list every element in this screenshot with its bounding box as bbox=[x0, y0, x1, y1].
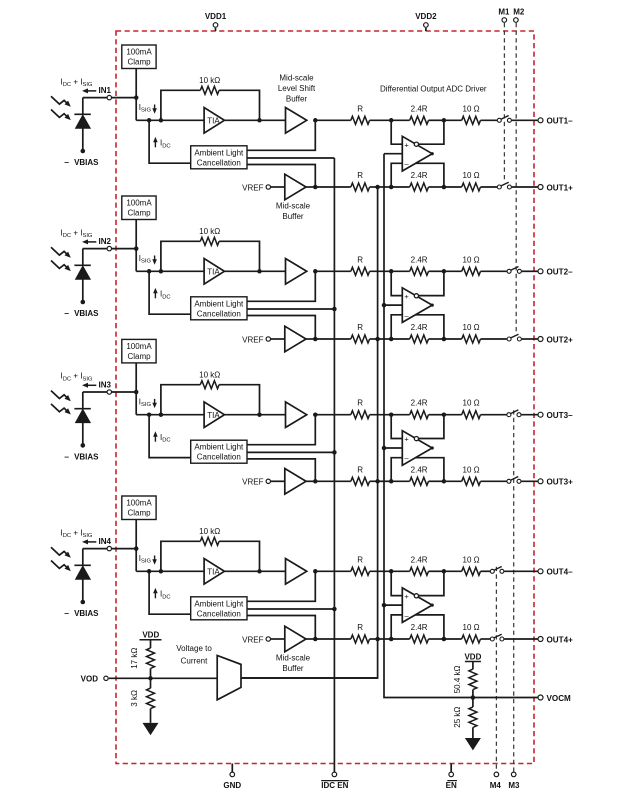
wire: output feedback (ch1) bbox=[415, 163, 444, 187]
junction: ALC tap (ch4) bbox=[147, 569, 152, 574]
wire: clamp stem (ch2) bbox=[135, 220, 137, 249]
junction (OUT2+ / offset bus) bbox=[375, 337, 380, 342]
control line M3 (dashed) bbox=[513, 410, 515, 772]
wire: to switch (OUT1-) bbox=[481, 119, 498, 121]
svg-text:TIA: TIA bbox=[207, 117, 220, 126]
wire: TIA input row (ch4) bbox=[136, 570, 204, 572]
switch (OUT4-) bbox=[490, 567, 504, 574]
wire: ALC to VREF buffer node (ch4) bbox=[247, 616, 315, 640]
svg-text:10 kΩ: 10 kΩ bbox=[199, 227, 220, 236]
svg-text:–: – bbox=[64, 608, 69, 618]
switch (OUT3-) bbox=[507, 410, 521, 417]
junction: ALC tap (ch3) bbox=[147, 412, 152, 417]
junction (OUT3- after 2.4R) bbox=[442, 412, 447, 417]
svg-text:2.4R: 2.4R bbox=[411, 465, 428, 474]
svg-text:100mA: 100mA bbox=[126, 499, 152, 508]
op-amp differential driver U4 bbox=[402, 588, 434, 623]
100mA clamp box (ch1) bbox=[122, 45, 156, 69]
junction: TIA output/feedback (ch4) bbox=[257, 569, 262, 574]
wire: 3k to ground bbox=[150, 709, 152, 723]
junction: TIA output/feedback (ch2) bbox=[257, 269, 262, 274]
light arrows into D4 bbox=[51, 547, 71, 571]
wire: ALC to IDC-EN bus (ch2) bbox=[247, 308, 334, 310]
wire: to switch (OUT2-) bbox=[481, 270, 507, 272]
junction: VOCM bus tap (ch2) bbox=[382, 303, 387, 308]
wire: TIA out to buffer (ch3) bbox=[224, 414, 285, 416]
svg-text:10 Ω: 10 Ω bbox=[463, 555, 480, 564]
svg-text:VDD: VDD bbox=[464, 652, 481, 661]
pin OUT3+ bbox=[538, 479, 543, 484]
switch (OUT3+) bbox=[507, 477, 521, 484]
svg-text:Clamp: Clamp bbox=[127, 58, 151, 67]
wire: buffer output to ALC sense (ch2) bbox=[247, 271, 315, 301]
wire: feedback loop left (ch1) bbox=[161, 90, 200, 120]
junction: buffer output (ch4) bbox=[313, 569, 318, 574]
svg-text:VREF: VREF bbox=[242, 478, 263, 487]
junction (OUT1- after 2.4R) bbox=[442, 118, 447, 123]
op-amp TIA (ch2) bbox=[204, 259, 224, 285]
wire: OUT1- row (ch1) bbox=[315, 119, 351, 121]
wire: + input (ch4) bbox=[391, 571, 402, 595]
switch (OUT4+) bbox=[490, 634, 504, 641]
svg-text:M4: M4 bbox=[490, 781, 502, 790]
svg-text:Ambient Light: Ambient Light bbox=[194, 148, 244, 157]
wire: input down to TIA row (ch2) bbox=[135, 249, 137, 272]
pin M1 bbox=[498, 8, 510, 23]
wire: input down to TIA row (ch1) bbox=[135, 98, 137, 121]
svg-text:M3: M3 bbox=[508, 781, 520, 790]
photodiode D1 bbox=[74, 98, 90, 154]
wire: VREF buffer out (ch4) bbox=[306, 638, 315, 640]
wire: ALC to IDC-EN bus (ch3) bbox=[247, 451, 334, 453]
svg-text:–: – bbox=[64, 157, 69, 167]
svg-text:Cancellation: Cancellation bbox=[197, 609, 241, 618]
wire: TIA out to buffer (ch1) bbox=[224, 119, 285, 121]
wire: V2I output bbox=[241, 677, 378, 679]
wire: input down to TIA row (ch3) bbox=[135, 392, 137, 415]
junction: VREF buffer node (ch4) bbox=[313, 637, 318, 642]
wire: 25k to ground bbox=[472, 727, 474, 738]
wire: ALC to IDC-EN bus (ch4) bbox=[247, 608, 334, 610]
svg-text:R: R bbox=[357, 104, 363, 113]
svg-text:VDD: VDD bbox=[142, 631, 159, 640]
svg-text:R: R bbox=[357, 623, 363, 632]
resistor R (OUT2-) bbox=[351, 267, 370, 275]
svg-text:+: + bbox=[404, 435, 408, 444]
junction: feedback tap (ch4) bbox=[159, 569, 164, 574]
junction: ALC/IDC-EN bus (ch4) bbox=[332, 607, 337, 612]
svg-text:10 kΩ: 10 kΩ bbox=[199, 527, 220, 536]
wire: down to ALC input (ch3) bbox=[149, 415, 191, 458]
svg-text:R: R bbox=[357, 255, 363, 264]
junction (OUT2- after R) bbox=[389, 269, 394, 274]
svg-text:R: R bbox=[357, 555, 363, 564]
label: Mid-scale Buffer (ch1) bbox=[276, 202, 311, 222]
arrow IDC up (ch3) bbox=[153, 431, 158, 441]
ground (VOD divider) bbox=[143, 723, 159, 735]
resistor 10 kΩ feedback (ch1) bbox=[200, 86, 219, 94]
wire: to switch (OUT3-) bbox=[481, 414, 507, 416]
wire: clamp stem (ch4) bbox=[135, 520, 137, 549]
wire: to switch (OUT4+) bbox=[481, 638, 491, 640]
junction: ALC/IDC-EN bus (ch3) bbox=[332, 450, 337, 455]
junction: IN4/clamp node bbox=[134, 546, 139, 551]
wire: switch to OUT2- bbox=[522, 270, 538, 272]
pin EN (active low) bbox=[446, 764, 457, 790]
junction: buffer output (ch1) bbox=[313, 118, 318, 123]
arrow IDC up (ch2) bbox=[153, 288, 158, 298]
arrow ISIG down (ch3) bbox=[152, 399, 157, 408]
wire: 17k to node bbox=[150, 668, 152, 678]
pin VOCM bbox=[538, 695, 543, 700]
svg-text:OUT2–: OUT2– bbox=[547, 268, 574, 277]
resistor R (OUT2+) bbox=[351, 335, 370, 343]
junction: VREF buffer node (ch2) bbox=[313, 337, 318, 342]
resistor 2.4R (OUT2+) bbox=[410, 335, 429, 343]
junction: feedback tap (ch1) bbox=[159, 118, 164, 123]
resistor 10 Ω (OUT2+) bbox=[462, 335, 481, 343]
junction: ALC tap (ch2) bbox=[147, 269, 152, 274]
svg-text:10 Ω: 10 Ω bbox=[463, 399, 480, 408]
wire: feedback loop left (ch2) bbox=[161, 241, 200, 271]
svg-text:IDC EN: IDC EN bbox=[321, 781, 348, 790]
resistor 10 kΩ feedback (ch4) bbox=[200, 537, 219, 545]
resistor 10 Ω (OUT4-) bbox=[462, 567, 481, 575]
svg-text:2.4R: 2.4R bbox=[411, 171, 428, 180]
wire: switch to OUT1- bbox=[512, 119, 538, 121]
junction: TIA output/feedback (ch3) bbox=[257, 412, 262, 417]
wire: output feedback (ch3) bbox=[415, 458, 444, 482]
wire: node to 3k bbox=[150, 678, 152, 688]
svg-text:3 kΩ: 3 kΩ bbox=[130, 690, 139, 707]
resistor 2.4R (OUT2-) bbox=[410, 267, 429, 275]
wire: switch to OUT4- bbox=[504, 570, 537, 572]
svg-text:Cancellation: Cancellation bbox=[197, 453, 241, 462]
svg-text:Mid-scale: Mid-scale bbox=[279, 73, 314, 82]
svg-text:Ambient Light: Ambient Light bbox=[194, 599, 244, 608]
terminal circle IN4 bbox=[107, 546, 111, 550]
junction (OUT4+ / offset bus) bbox=[375, 637, 380, 642]
wire: - input (ch3) bbox=[391, 458, 402, 482]
svg-text:VREF: VREF bbox=[242, 635, 263, 644]
svg-text:Current: Current bbox=[181, 657, 208, 666]
junction: TIA output/feedback (ch1) bbox=[257, 118, 262, 123]
wire: to switch (OUT4-) bbox=[481, 570, 491, 572]
wire: down to ALC input (ch2) bbox=[149, 271, 191, 314]
junction (OUT1- after R) bbox=[389, 118, 394, 123]
svg-text:10 Ω: 10 Ω bbox=[463, 171, 480, 180]
svg-text:OUT2+: OUT2+ bbox=[547, 335, 574, 344]
wire: inverted output feedback (ch3) bbox=[419, 415, 444, 439]
wire: TIA input row (ch3) bbox=[136, 414, 204, 416]
terminal circle IN2 bbox=[107, 246, 111, 250]
svg-text:2.4R: 2.4R bbox=[411, 623, 428, 632]
svg-text:10 Ω: 10 Ω bbox=[463, 623, 480, 632]
svg-text:R: R bbox=[357, 399, 363, 408]
bus: offset-current vertical from V2I bbox=[241, 187, 378, 678]
svg-text:–: – bbox=[64, 308, 69, 318]
light arrows into D3 bbox=[51, 391, 71, 415]
junction (OUT3- after R) bbox=[389, 412, 394, 417]
wire: TIA out to buffer (ch4) bbox=[224, 570, 285, 572]
current arrow at IN2 bbox=[82, 239, 96, 244]
wire: inverted output feedback (ch4) bbox=[419, 571, 444, 595]
junction: ALC tap (ch1) bbox=[147, 118, 152, 123]
wire: OUT3+ row (ch3) bbox=[315, 480, 351, 482]
wire: VDD to 17k bbox=[150, 640, 152, 648]
buffer mid-scale (ch4) bbox=[285, 626, 306, 652]
wire: clamp stem (ch3) bbox=[135, 363, 137, 392]
arrow ISIG down (ch4) bbox=[152, 556, 157, 565]
wire: OUT2+ row (ch2) bbox=[315, 338, 351, 340]
resistor 10 kΩ feedback (ch2) bbox=[200, 237, 219, 245]
wire: VDD to 50.4k bbox=[472, 662, 474, 670]
wire: VOCM input (ch4) bbox=[384, 604, 402, 606]
current arrow at IN1 bbox=[82, 88, 96, 93]
label: Mid-scale Buffer (ch4) bbox=[276, 654, 311, 674]
resistor 10 kΩ feedback (ch3) bbox=[200, 381, 219, 389]
svg-text:Differential Output ADC Driver: Differential Output ADC Driver bbox=[380, 85, 487, 94]
resistor 2.4R (OUT3-) bbox=[410, 411, 429, 419]
wire: down to ALC input (ch1) bbox=[149, 120, 191, 163]
switch (OUT2-) bbox=[507, 267, 521, 274]
resistor 2.4R (OUT1+) bbox=[410, 183, 429, 191]
label: Voltage to Current bbox=[176, 644, 212, 666]
svg-text:–: – bbox=[64, 451, 69, 461]
light arrows into D2 bbox=[51, 247, 71, 271]
wire: feedback loop left (ch4) bbox=[161, 541, 200, 571]
100mA clamp box (ch3) bbox=[122, 339, 156, 363]
wire: IN3 input bbox=[83, 391, 136, 393]
resistor R (OUT3+) bbox=[351, 477, 370, 485]
pin M2 bbox=[513, 8, 525, 23]
svg-text:Buffer: Buffer bbox=[286, 94, 308, 103]
svg-text:GND: GND bbox=[223, 781, 241, 790]
svg-text:2.4R: 2.4R bbox=[411, 255, 428, 264]
wire: feedback loop right (ch1) bbox=[219, 90, 259, 120]
junction: feedback tap (ch2) bbox=[159, 269, 164, 274]
photodiode D2 bbox=[74, 249, 90, 305]
resistor 2.4R (OUT3+) bbox=[410, 477, 429, 485]
wire: + input (ch3) bbox=[391, 415, 402, 439]
box ambient light cancellation (ch2) bbox=[191, 297, 247, 320]
arrow ISIG down (ch1) bbox=[152, 105, 157, 114]
junction (OUT3+ after 2.4R) bbox=[442, 479, 447, 484]
junction (OUT4+ after R) bbox=[389, 637, 394, 642]
wire: OUT2- row (ch2) bbox=[315, 270, 351, 272]
svg-text:VDD2: VDD2 bbox=[415, 12, 437, 21]
wire: switch to OUT2+ bbox=[522, 338, 538, 340]
100mA clamp box (ch4) bbox=[122, 496, 156, 520]
wire: OUT1+ row (ch1) bbox=[315, 186, 351, 188]
wire: - input (ch4) bbox=[391, 615, 402, 639]
svg-text:VOD: VOD bbox=[81, 675, 99, 684]
pin IDC EN bbox=[321, 772, 348, 790]
pin M4 bbox=[490, 772, 502, 790]
wire: clamp stem (ch1) bbox=[135, 69, 137, 98]
svg-text:10 Ω: 10 Ω bbox=[463, 255, 480, 264]
pin OUT1+ bbox=[538, 185, 543, 190]
junction: IN1/clamp node bbox=[134, 95, 139, 100]
op-amp differential driver U1 bbox=[402, 136, 434, 171]
svg-text:Buffer: Buffer bbox=[282, 664, 304, 673]
wire: down to ALC input (ch4) bbox=[149, 571, 191, 614]
resistor R (OUT1-) bbox=[351, 116, 370, 124]
wire: inverted output feedback (ch1) bbox=[419, 120, 444, 144]
svg-text:Voltage to: Voltage to bbox=[176, 644, 212, 653]
bus: VOCM vertical bbox=[384, 154, 538, 698]
wire: VREF to buffer (ch2) bbox=[271, 338, 285, 340]
svg-text:50.4 kΩ: 50.4 kΩ bbox=[453, 665, 462, 693]
arrow IDC up (ch1) bbox=[153, 137, 158, 147]
wire: to switch (OUT3+) bbox=[481, 480, 507, 482]
svg-text:R: R bbox=[357, 323, 363, 332]
op-amp differential driver U3 bbox=[402, 431, 434, 466]
ground (VOCM divider) bbox=[465, 738, 481, 750]
wire: + input (ch2) bbox=[391, 271, 402, 295]
junction: VOCM bus tap (ch3) bbox=[382, 446, 387, 451]
control line M2 (dashed) bbox=[515, 23, 517, 334]
wire: VOCM input (ch2) bbox=[384, 304, 402, 306]
resistor 10 Ω (OUT3-) bbox=[462, 411, 481, 419]
wire: inverted output feedback (ch2) bbox=[419, 271, 444, 295]
junction (OUT1+ / offset bus) bbox=[375, 185, 380, 190]
wire: input down to TIA row (ch4) bbox=[135, 549, 137, 572]
svg-text:TIA: TIA bbox=[207, 268, 220, 277]
junction: VOD divider bbox=[148, 676, 153, 681]
control line M4 (dashed) bbox=[495, 567, 497, 772]
svg-text:Mid-scale: Mid-scale bbox=[276, 654, 311, 663]
svg-text:17 kΩ: 17 kΩ bbox=[130, 648, 139, 669]
junction: VREF buffer node (ch3) bbox=[313, 479, 318, 484]
svg-text:VREF: VREF bbox=[242, 183, 263, 192]
pin OUT4- bbox=[538, 569, 543, 574]
svg-text:VBIAS: VBIAS bbox=[74, 309, 99, 318]
svg-text:Cancellation: Cancellation bbox=[197, 309, 241, 318]
resistor R (OUT3-) bbox=[351, 411, 370, 419]
wire: ALC to VREF buffer node (ch2) bbox=[247, 316, 315, 340]
svg-text:M2: M2 bbox=[513, 8, 525, 17]
junction: feedback tap (ch3) bbox=[159, 412, 164, 417]
svg-text:Clamp: Clamp bbox=[127, 209, 151, 218]
svg-text:IN4: IN4 bbox=[99, 537, 112, 546]
wire: switch to OUT4+ bbox=[504, 638, 537, 640]
arrow IDC up (ch4) bbox=[153, 588, 158, 598]
terminal circle IN1 bbox=[107, 95, 111, 99]
switch (OUT1-) bbox=[497, 116, 511, 123]
svg-text:2.4R: 2.4R bbox=[411, 399, 428, 408]
wire: VREF to buffer (ch3) bbox=[271, 480, 285, 482]
pin OUT3- bbox=[538, 412, 543, 417]
100mA clamp box (ch2) bbox=[122, 196, 156, 220]
resistor 10 Ω (OUT4+) bbox=[462, 635, 481, 643]
rail VDD (left) bbox=[140, 631, 162, 640]
resistor 17 kOhm bbox=[147, 648, 155, 669]
wire: feedback loop left (ch3) bbox=[161, 385, 200, 415]
wire: VREF buffer out (ch1) bbox=[306, 186, 315, 188]
svg-text:Clamp: Clamp bbox=[127, 352, 151, 361]
svg-text:TIA: TIA bbox=[207, 568, 220, 577]
wire: IN2 input bbox=[83, 248, 136, 250]
wire: feedback loop right (ch3) bbox=[219, 385, 259, 415]
svg-text:OUT3–: OUT3– bbox=[547, 411, 574, 420]
wire: VOCM input (ch1) bbox=[384, 153, 402, 155]
svg-text:VBIAS: VBIAS bbox=[74, 158, 99, 167]
svg-text:VREF: VREF bbox=[242, 335, 263, 344]
op-amp TIA (ch1) bbox=[204, 108, 224, 134]
resistor R (OUT4-) bbox=[351, 567, 370, 575]
buffer mid-scale (ch3) bbox=[285, 469, 306, 495]
svg-text:IN3: IN3 bbox=[99, 381, 112, 390]
resistor 10 Ω (OUT1-) bbox=[462, 116, 481, 124]
wire: OUT3- row (ch3) bbox=[315, 414, 351, 416]
svg-text:OUT4–: OUT4– bbox=[547, 568, 574, 577]
wire: switch to OUT3- bbox=[521, 414, 537, 416]
svg-text:100mA: 100mA bbox=[126, 48, 152, 57]
wire: ALC to VREF buffer node (ch1) bbox=[247, 165, 315, 188]
buffer mid-scale level shift (ch1) bbox=[286, 108, 307, 134]
buffer mid-scale (ch2) bbox=[285, 326, 306, 352]
photodiode D4 bbox=[74, 549, 90, 605]
junction: IN2/clamp node bbox=[134, 246, 139, 251]
buffer mid-scale level shift (ch2) bbox=[286, 259, 307, 285]
junction: buffer output (ch2) bbox=[313, 269, 318, 274]
junction: VREF buffer node (ch1) bbox=[313, 185, 318, 190]
svg-text:10 Ω: 10 Ω bbox=[463, 323, 480, 332]
svg-text:VOCM: VOCM bbox=[547, 694, 572, 703]
junction: VOCM divider bbox=[471, 695, 476, 700]
svg-text:R: R bbox=[357, 465, 363, 474]
wire: switch to OUT3+ bbox=[521, 480, 537, 482]
svg-text:IN1: IN1 bbox=[99, 86, 112, 95]
op-amp TIA (ch4) bbox=[204, 559, 224, 585]
pin GND bbox=[223, 764, 241, 790]
svg-text:10 kΩ: 10 kΩ bbox=[199, 76, 220, 85]
wire: ALC to VREF buffer node (ch3) bbox=[247, 459, 315, 481]
V-to-I converter block bbox=[217, 656, 241, 700]
svg-text:Ambient Light: Ambient Light bbox=[194, 299, 244, 308]
arrow ISIG down (ch2) bbox=[152, 256, 157, 265]
junction (OUT4- after R) bbox=[389, 569, 394, 574]
svg-text:OUT4+: OUT4+ bbox=[547, 635, 574, 644]
junction (OUT1+ after 2.4R) bbox=[442, 185, 447, 190]
wire: TIA input row (ch2) bbox=[136, 270, 204, 272]
wire: output feedback (ch4) bbox=[415, 615, 444, 639]
rail VDD (right) bbox=[464, 652, 481, 661]
junction (OUT3+ after R) bbox=[389, 479, 394, 484]
junction (OUT2+ after R) bbox=[389, 337, 394, 342]
wire: OUT4- row (ch4) bbox=[315, 570, 351, 572]
switch (OUT1+) bbox=[497, 182, 511, 189]
svg-text:OUT1–: OUT1– bbox=[547, 117, 574, 126]
pin OUT2- bbox=[538, 269, 543, 274]
svg-text:OUT3+: OUT3+ bbox=[547, 478, 574, 487]
svg-text:OUT1+: OUT1+ bbox=[547, 183, 574, 192]
resistor 10 Ω (OUT3+) bbox=[462, 477, 481, 485]
junction: buffer output (ch3) bbox=[313, 412, 318, 417]
wire: buffer output to ALC sense (ch4) bbox=[247, 571, 315, 601]
buffer mid-scale (ch1) bbox=[285, 174, 306, 200]
current arrow at IN4 bbox=[82, 539, 96, 544]
wire: feedback loop right (ch2) bbox=[219, 241, 259, 271]
resistor 25 kOhm bbox=[469, 707, 477, 728]
terminal circle IN3 bbox=[107, 390, 111, 394]
svg-text:TIA: TIA bbox=[207, 411, 220, 420]
pin OUT4+ bbox=[538, 637, 543, 642]
svg-text:+: + bbox=[404, 592, 408, 601]
svg-text:IN2: IN2 bbox=[99, 237, 112, 246]
wire: VOCM node to 25k bbox=[472, 698, 474, 708]
